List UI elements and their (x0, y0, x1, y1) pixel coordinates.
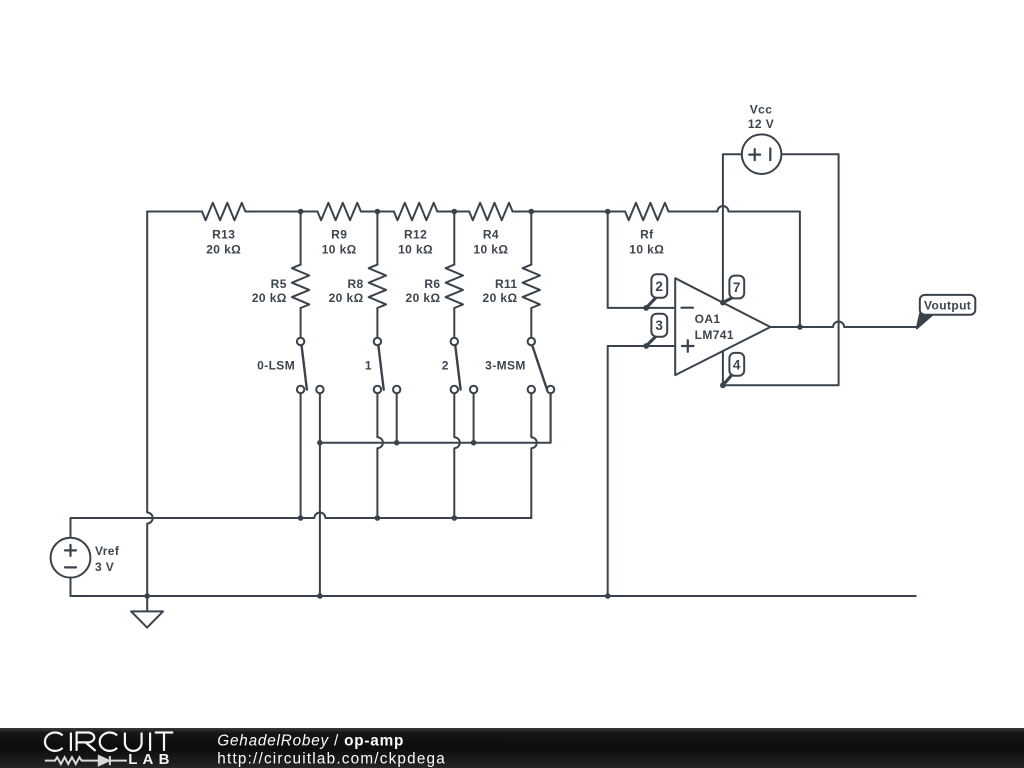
voltage source Vcc (742, 134, 782, 174)
node top rail junction x=377.4 (375, 209, 381, 215)
svg-text:R13: R13 (212, 228, 235, 242)
wire lower bus from Vref+ (hops SW1-right wire) (71, 513, 532, 538)
svg-text:R9: R9 (331, 228, 347, 242)
switch SW1 (0-LSM) (297, 338, 304, 345)
resistor R11 (523, 265, 540, 308)
svg-text:0-LSM: 0-LSM (257, 359, 295, 373)
pin 4 label (723, 376, 731, 386)
node bottom rail / non-inverting input wire (605, 593, 611, 599)
wire feedback: Rf right end over pin-7 wire, down to output node (669, 206, 800, 327)
wire top rail segment left of R13 (147, 211, 202, 213)
node SW2 left / lower bus (375, 515, 381, 521)
node top rail junction x=531.3 (529, 209, 535, 215)
wire upper bus (320, 393, 551, 443)
pin 7 terminal (720, 300, 726, 306)
svg-text:R11: R11 (495, 277, 518, 291)
node SW1 left / lower bus (298, 515, 304, 521)
wire top rail R12 to R4 (437, 211, 469, 213)
svg-text:LAB: LAB (128, 751, 174, 768)
wire top-left vertical from top rail to bottom rail (147, 212, 153, 597)
node top rail junction x=300.6 (298, 209, 304, 215)
logo CIRCUIT lettering (45, 733, 173, 751)
op-amp minus sign (682, 307, 694, 309)
wire SW2 right throw down to upper bus (396, 393, 398, 443)
node SW1 right / bottom rail (317, 593, 323, 599)
svg-text:3-MSM: 3-MSM (485, 359, 526, 373)
node top rail junction x=454.3 (452, 209, 458, 215)
node SW3 left / lower bus (452, 515, 458, 521)
svg-text:R8: R8 (347, 277, 363, 291)
wire SW3 left throw down to lower bus (hops upper bus) (454, 393, 460, 518)
op-amp plus sign (682, 340, 694, 352)
svg-text:7: 7 (733, 280, 741, 295)
wire Vref- down to bottom rail and bottom rail run (71, 578, 916, 596)
node output / feedback (797, 324, 803, 330)
svg-text:http://circuitlab.com/ckpdega: http://circuitlab.com/ckpdega (217, 751, 446, 768)
resistor R12 (394, 203, 437, 220)
svg-text:OA1: OA1 (695, 312, 721, 326)
svg-text:10 kΩ: 10 kΩ (629, 242, 664, 256)
wire SW1 right throw down to bottom rail (319, 393, 321, 596)
svg-text:20 kΩ: 20 kΩ (329, 291, 364, 305)
svg-text:R6: R6 (424, 277, 440, 291)
wire R11 to switch (530, 308, 532, 338)
svg-text:3: 3 (655, 318, 663, 333)
wire R5 to switch (300, 308, 302, 338)
wire SW4 left throw down to lower bus (hops upper bus) (531, 393, 537, 518)
wire top rail R13 to R9 (245, 211, 317, 213)
resistor R13 (202, 203, 245, 220)
switch SW4 (3-MSM) (528, 338, 535, 345)
svg-text:20 kΩ: 20 kΩ (206, 242, 241, 256)
svg-text:R5: R5 (271, 277, 287, 291)
pin 4 terminal (720, 382, 726, 388)
wire output (hops Vcc- wire) (770, 322, 916, 328)
svg-text:10 kΩ: 10 kΩ (322, 242, 357, 256)
wire top rail R9 to R12 (361, 211, 394, 213)
wire top rail down to R6 (453, 212, 455, 265)
wire pin 7 up to Vcc+ (top rail hops over it) (723, 154, 742, 302)
voltage source Vref (51, 538, 91, 578)
op-amp OA1 triangle (675, 278, 770, 375)
svg-text:R12: R12 (404, 228, 427, 242)
node bottom rail / ground (144, 593, 150, 599)
svg-text:4: 4 (733, 357, 741, 372)
wire pin 4 to Vcc- (down, right, up) (723, 154, 839, 385)
wire R8 to switch (376, 308, 378, 338)
svg-text:20 kΩ: 20 kΩ (406, 291, 441, 305)
svg-text:20 kΩ: 20 kΩ (252, 291, 287, 305)
pin 2 label (646, 298, 655, 308)
svg-text:GehadelRobey / op-amp: GehadelRobey / op-amp (217, 732, 404, 749)
wire top rail down to R8 (376, 212, 378, 265)
pin 7 label (723, 298, 731, 302)
pin 3 label (646, 337, 655, 346)
svg-text:Voutput: Voutput (924, 298, 971, 312)
resistor R9 (318, 203, 361, 220)
logo resistor-diode squiggle (45, 756, 127, 765)
svg-text:2: 2 (655, 279, 663, 294)
svg-text:10 kΩ: 10 kΩ (473, 242, 508, 256)
svg-text:Vref: Vref (95, 544, 120, 558)
svg-text:R4: R4 (483, 228, 499, 242)
resistor R4 (469, 203, 512, 220)
switch SW3 (2) (451, 338, 458, 345)
footer bar (0, 728, 1024, 768)
switch SW2 (1) (374, 338, 381, 345)
ground (146, 597, 148, 611)
pin 2 terminal (643, 305, 649, 311)
wire SW1 left throw down to lower bus (300, 393, 302, 518)
node SW2 right / upper bus (394, 440, 400, 446)
svg-text:20 kΩ: 20 kΩ (483, 291, 518, 305)
svg-text:LM741: LM741 (695, 328, 734, 342)
wire inverting input from top rail (608, 212, 676, 308)
wire top rail down to R5 (300, 212, 302, 265)
node top rail junction to inverting input (605, 209, 611, 215)
svg-text:Vcc: Vcc (750, 103, 773, 117)
resistor Rf (625, 203, 668, 220)
wire SW3 right throw down to upper bus (473, 393, 475, 443)
wire top rail down to R11 (530, 212, 532, 265)
svg-text:10 kΩ: 10 kΩ (398, 242, 433, 256)
wire top rail R4 to Rf (513, 211, 626, 213)
svg-text:3 V: 3 V (95, 560, 114, 574)
node SW3 right / upper bus (471, 440, 477, 446)
resistor R6 (446, 265, 463, 308)
flag Voutput (917, 314, 932, 329)
wire non-inverting input down to bottom rail (608, 346, 676, 596)
resistor R5 (292, 265, 309, 308)
wire SW2 left throw down to lower bus (hops upper bus) (377, 393, 383, 518)
resistor R8 (369, 265, 386, 308)
wire R6 to switch (453, 308, 455, 338)
node SW1 right / upper bus (317, 440, 323, 446)
svg-text:12 V: 12 V (748, 117, 774, 131)
svg-text:1: 1 (365, 359, 372, 373)
svg-text:Rf: Rf (640, 228, 654, 242)
wire SW4 right throw down to upper bus (550, 393, 552, 443)
svg-text:2: 2 (442, 359, 449, 373)
pin 3 terminal (643, 343, 649, 349)
